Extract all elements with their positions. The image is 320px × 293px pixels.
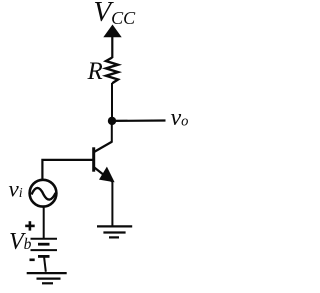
ground [27,273,67,283]
svg-text:vi: vi [9,177,23,202]
ground [97,226,132,237]
battery Vb [31,239,58,257]
battery Vb plus label [25,221,35,230]
wire [111,121,113,142]
battery Vb minus label [30,258,35,261]
svg-text:VCC: VCC [93,0,136,28]
svg-text:R: R [87,58,103,85]
VCC supply arrow [103,25,121,59]
transistor Q1 [94,142,115,183]
wire [44,256,46,271]
wire [111,83,113,121]
resistor R [106,58,118,84]
ac source vi [30,180,57,207]
wire [43,207,45,238]
svg-text:vo: vo [171,105,189,131]
wire [112,119,166,122]
wire [111,181,113,226]
wire [42,160,93,180]
node junction dot [108,117,116,125]
svg-text:Vb: Vb [9,229,32,255]
